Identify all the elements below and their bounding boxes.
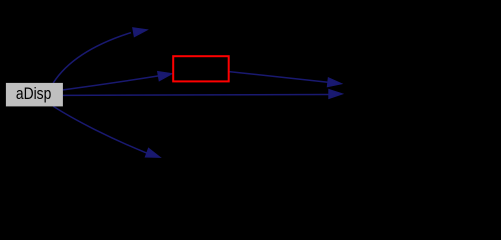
node aDisp box bbox=[6, 83, 63, 107]
wire aDisp to red node bbox=[62, 76, 158, 90]
arrowhead into red node bbox=[158, 72, 173, 81]
wire aDisp to right node (long) bbox=[63, 94, 329, 97]
svg-text:aDisp: aDisp bbox=[16, 85, 51, 103]
wire aDisp to bottom node bbox=[53, 106, 147, 153]
wire red node to right node bbox=[229, 72, 328, 83]
wire aDisp to top node bbox=[53, 33, 131, 83]
arrowhead top bbox=[133, 28, 148, 37]
arrowhead right lower bbox=[329, 89, 343, 98]
arrowhead bottom bbox=[145, 148, 160, 157]
node red (highlighted) box bbox=[173, 56, 229, 81]
arrowhead right upper bbox=[327, 78, 341, 87]
